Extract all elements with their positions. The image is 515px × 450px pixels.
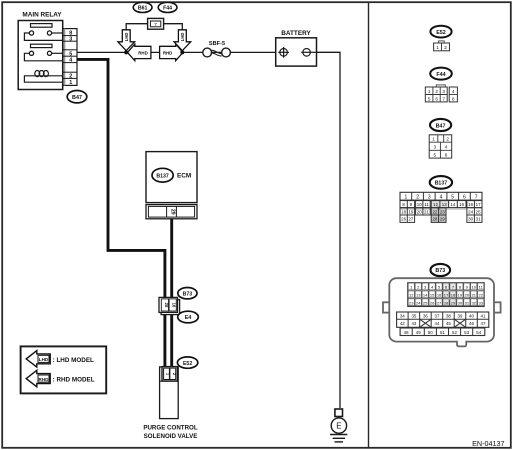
svg-text:17: 17 (476, 202, 481, 207)
panel oval F44 (430, 68, 452, 80)
panel connector B47 (429, 135, 452, 158)
wire relay1 to pin 8 (52, 32, 64, 34)
svg-text:2: 2 (435, 89, 438, 94)
svg-text:34: 34 (400, 313, 405, 318)
svg-text:1: 1 (436, 45, 439, 50)
svg-text:19: 19 (458, 292, 463, 297)
svg-text:23: 23 (409, 300, 414, 305)
panel connector F44 (425, 85, 457, 102)
RHD arrow right (160, 44, 183, 61)
svg-text:27: 27 (408, 217, 413, 222)
svg-text:29: 29 (170, 209, 176, 215)
svg-text:22: 22 (432, 209, 437, 214)
legend box (21, 346, 107, 393)
svg-text:41: 41 (481, 313, 486, 318)
svg-text:54: 54 (476, 330, 481, 335)
svg-text:25: 25 (423, 300, 428, 305)
wire relay1 to pin 3 (24, 33, 64, 40)
legend LHD arrow (26, 351, 50, 368)
svg-text:36: 36 (423, 313, 428, 318)
svg-text:53: 53 (464, 330, 469, 335)
svg-text:ECM: ECM (177, 173, 191, 180)
svg-text:28: 28 (444, 300, 449, 305)
relay switch 1 (29, 31, 51, 35)
svg-text:B47: B47 (72, 95, 82, 101)
svg-text:1: 1 (428, 89, 431, 94)
svg-text:B137: B137 (435, 181, 448, 187)
svg-text:B73: B73 (435, 268, 445, 274)
svg-text:30: 30 (458, 300, 463, 305)
svg-text:14: 14 (423, 292, 428, 297)
svg-text:12: 12 (409, 292, 414, 297)
connector oval B47 (67, 91, 87, 103)
relay coil (33, 71, 64, 77)
ECM pin strip (146, 205, 197, 219)
svg-text:24: 24 (416, 300, 421, 305)
svg-text:F44: F44 (163, 6, 172, 12)
svg-text:BATTERY: BATTERY (281, 30, 311, 37)
svg-text:3: 3 (434, 144, 437, 149)
svg-text:31: 31 (465, 300, 470, 305)
svg-text:2: 2 (444, 45, 447, 50)
relay switch 2 (29, 51, 51, 55)
svg-text:17: 17 (444, 292, 449, 297)
svg-text:42: 42 (400, 321, 405, 326)
B137 row1 pins 1-7 (400, 192, 482, 200)
svg-text:12: 12 (433, 202, 438, 207)
B137 row3 pins 18-25 (400, 208, 482, 215)
svg-text:4: 4 (445, 144, 448, 149)
svg-text:B61: B61 (138, 6, 148, 12)
wire pin5 to battery (77, 51, 280, 53)
svg-text:2: 2 (446, 137, 449, 142)
svg-text:29: 29 (451, 300, 456, 305)
svg-text:E52: E52 (183, 361, 192, 367)
relay pin strip B47 (63, 29, 77, 86)
svg-text:16: 16 (468, 202, 473, 207)
svg-text:1: 1 (432, 137, 435, 142)
svg-text:3: 3 (69, 37, 72, 43)
svg-text:49: 49 (416, 330, 421, 335)
ground E (330, 409, 347, 442)
svg-text:46: 46 (469, 321, 474, 326)
svg-text:7: 7 (475, 194, 478, 200)
svg-text:4: 4 (69, 58, 72, 64)
svg-text:PURGE CONTROL: PURGE CONTROL (143, 424, 198, 431)
wire fuse left leg (126, 24, 147, 30)
svg-text:3: 3 (442, 89, 445, 94)
svg-text:19: 19 (408, 209, 413, 214)
svg-text:: LHD MODEL: : LHD MODEL (53, 357, 94, 364)
battery plus terminal (278, 47, 289, 58)
svg-text:33: 33 (479, 300, 484, 305)
svg-text:31: 31 (476, 217, 481, 222)
svg-text:30: 30 (468, 217, 473, 222)
svg-text:RHD: RHD (39, 377, 50, 382)
svg-text:E4: E4 (185, 315, 192, 321)
relay contact bar 1 (31, 24, 53, 28)
LHD arrow left (118, 30, 135, 51)
svg-text:5: 5 (434, 152, 437, 157)
main relay box (18, 21, 63, 90)
svg-text:22: 22 (479, 292, 484, 297)
fuse SBF-5 (203, 48, 231, 57)
purge control solenoid valve body (160, 367, 179, 419)
svg-text:48: 48 (404, 330, 409, 335)
X blocked cell 1 (420, 319, 432, 327)
highlight band horizontal (400, 207, 466, 210)
wire coil to pin 1 (24, 76, 64, 82)
svg-text:: RHD MODEL: : RHD MODEL (53, 377, 95, 384)
junction dot right (180, 50, 184, 54)
svg-text:4: 4 (440, 194, 443, 200)
svg-text:29: 29 (440, 217, 445, 222)
svg-text:51: 51 (440, 330, 445, 335)
battery box (276, 38, 317, 66)
ECM box (146, 152, 197, 203)
svg-text:43: 43 (411, 321, 416, 326)
svg-text:2: 2 (69, 74, 72, 80)
wire relay2 to pin 5 (52, 52, 64, 54)
svg-text:40: 40 (469, 313, 474, 318)
svg-text:27: 27 (437, 300, 442, 305)
B73 top block pins 1-33 (408, 283, 485, 307)
svg-text:21: 21 (424, 209, 429, 214)
svg-text:32: 32 (472, 300, 477, 305)
connector oval B61 (133, 2, 152, 12)
B73 bottom block pins 34-47 (397, 312, 489, 327)
svg-text:14: 14 (450, 202, 455, 207)
wire ECM pin29 to solenoid (170, 219, 173, 370)
svg-text:RHD: RHD (163, 50, 173, 55)
svg-text:25: 25 (476, 209, 481, 214)
svg-text:28: 28 (432, 217, 437, 222)
svg-text:47: 47 (481, 321, 486, 326)
svg-text:6: 6 (435, 96, 438, 101)
svg-text:23: 23 (440, 209, 445, 214)
wire pin4 thick L to inline connector (77, 59, 165, 299)
svg-text:10: 10 (417, 202, 422, 207)
panel oval E52 (430, 26, 451, 38)
svg-text:5: 5 (451, 194, 454, 200)
legend RHD arrow (26, 370, 50, 387)
connector oval E52 (solenoid) (177, 357, 197, 368)
svg-text:13: 13 (442, 202, 447, 207)
B137 row4 pins 26-31 (400, 215, 482, 222)
svg-text:E: E (336, 422, 341, 431)
svg-text:13: 13 (416, 292, 421, 297)
wire inline connector to solenoid (left) (163, 299, 166, 370)
svg-text:16: 16 (172, 303, 177, 308)
connector oval F44 (158, 2, 177, 12)
svg-text:8: 8 (452, 96, 455, 101)
svg-text:MAIN RELAY: MAIN RELAY (22, 11, 62, 18)
wire battery to ground (317, 52, 341, 408)
X blocked cell 2 (454, 319, 466, 327)
svg-text:F44: F44 (436, 72, 445, 78)
svg-text:E52: E52 (436, 30, 446, 36)
svg-text:SOLENOID VALVE: SOLENOID VALVE (144, 433, 198, 440)
B137 row2 pins 8-17 (400, 201, 482, 208)
svg-text:B73: B73 (183, 291, 193, 297)
svg-text:4: 4 (452, 89, 455, 94)
connector oval B137 (ECM) (152, 168, 173, 182)
svg-text:26: 26 (430, 300, 435, 305)
svg-text:7: 7 (154, 22, 157, 28)
battery minus terminal (301, 49, 316, 57)
relay contact bar 2 (31, 44, 53, 47)
svg-text:15: 15 (459, 202, 464, 207)
svg-text:RHD: RHD (138, 50, 148, 55)
panel oval B73 (431, 264, 451, 276)
svg-text:1: 1 (69, 80, 72, 86)
svg-text:1: 1 (405, 194, 408, 200)
panel connector B137 (400, 192, 482, 222)
svg-text:21: 21 (472, 292, 477, 297)
svg-text:B47: B47 (436, 123, 446, 129)
svg-text:6: 6 (445, 152, 448, 157)
svg-text:39: 39 (458, 313, 463, 318)
svg-text:16: 16 (437, 292, 442, 297)
panel connector E52 (434, 41, 450, 51)
svg-text:44: 44 (435, 321, 440, 326)
inline connector B73/E4 (159, 297, 180, 314)
junction dot left (124, 50, 128, 54)
svg-text:LHD: LHD (180, 33, 185, 42)
svg-text:5: 5 (69, 51, 72, 57)
svg-text:50: 50 (428, 330, 433, 335)
LHD arrow right (174, 30, 191, 51)
solenoid connector (162, 367, 177, 381)
B73 bottom row pins 48-54 (400, 328, 485, 336)
svg-text:10: 10 (472, 285, 477, 290)
svg-text:20: 20 (465, 292, 470, 297)
svg-text:6: 6 (463, 194, 466, 200)
svg-text:SBF-5: SBF-5 (209, 41, 225, 47)
svg-text:EN-04137: EN-04137 (472, 439, 504, 448)
highlight band vertical pin 29 column (431, 201, 448, 208)
svg-text:24: 24 (468, 209, 473, 214)
svg-text:20: 20 (417, 209, 422, 214)
panel connector B73 shell (383, 278, 501, 346)
wire fuse right leg (164, 24, 183, 30)
svg-text:52: 52 (452, 330, 457, 335)
svg-text:26: 26 (401, 217, 406, 222)
connector oval E4 (inline) (178, 311, 199, 323)
svg-text:7: 7 (442, 96, 445, 101)
svg-text:45: 45 (446, 321, 451, 326)
wire relay2 to pin 4 (24, 53, 64, 61)
svg-text:B137: B137 (156, 173, 169, 179)
fuse 7 (148, 18, 164, 29)
svg-text:28: 28 (164, 303, 169, 308)
svg-text:3: 3 (428, 194, 431, 200)
svg-text:35: 35 (411, 313, 416, 318)
svg-text:37: 37 (435, 313, 440, 318)
svg-text:LHD: LHD (39, 357, 49, 362)
panel oval B137 (430, 176, 452, 189)
svg-text:18: 18 (451, 292, 456, 297)
svg-text:LHD: LHD (124, 33, 129, 42)
svg-text:15: 15 (430, 292, 435, 297)
svg-text:38: 38 (446, 313, 451, 318)
svg-text:18: 18 (401, 209, 406, 214)
svg-text:11: 11 (424, 202, 429, 207)
connector oval B73 (inline) (178, 288, 197, 299)
panel oval B47 (430, 119, 451, 131)
svg-text:5: 5 (428, 96, 431, 101)
svg-text:2: 2 (416, 194, 419, 200)
RHD arrow left (128, 44, 151, 61)
